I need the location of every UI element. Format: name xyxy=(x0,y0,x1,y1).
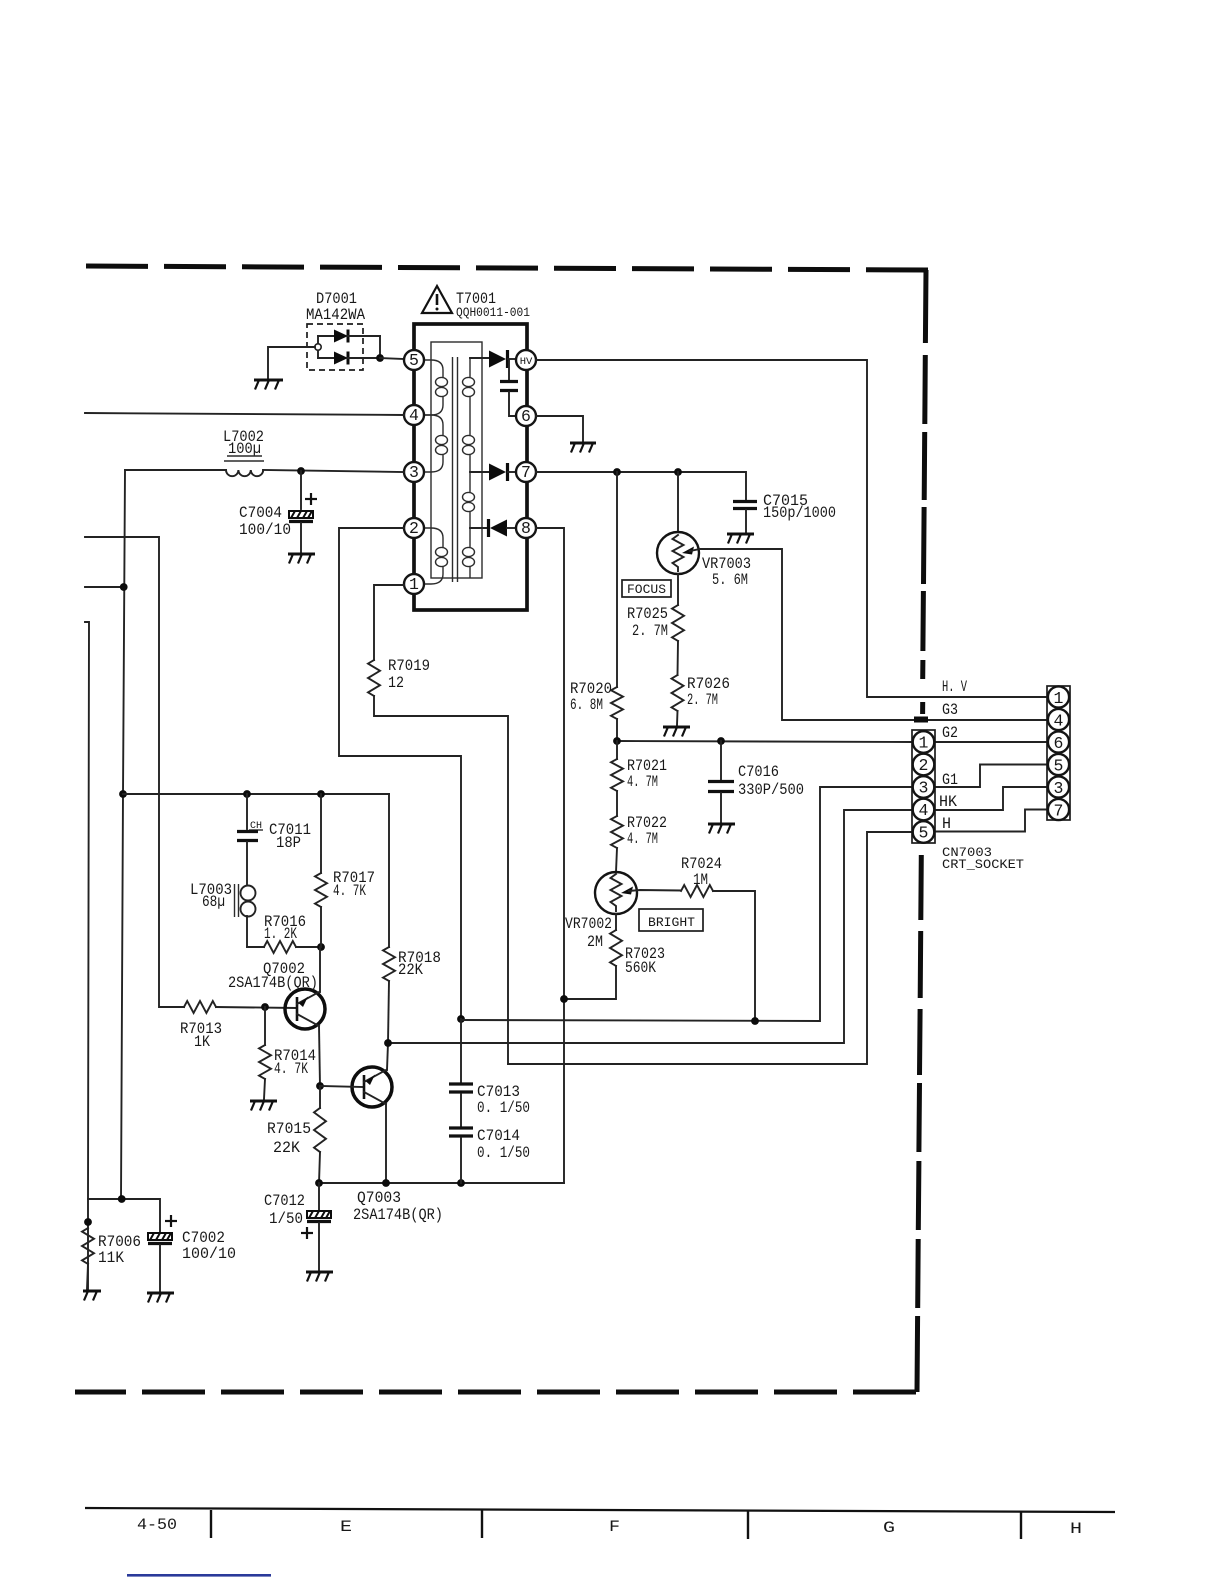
pin 5 xyxy=(404,350,424,370)
capacitor C7014 0.1/50 xyxy=(449,1127,530,1183)
capacitor C7013 0.1/50 xyxy=(449,1019,530,1126)
wire pin2 net down to C7013 xyxy=(339,528,461,1019)
diode to pin8 (reversed) xyxy=(470,519,516,537)
wire HK step to right pin3 xyxy=(935,787,1048,810)
svg-text:2: 2 xyxy=(919,756,929,775)
svg-text:5: 5 xyxy=(1054,757,1064,776)
svg-text:11K: 11K xyxy=(98,1249,124,1267)
wire bus y794 xyxy=(123,793,389,795)
diode pair D7001 MA142WA xyxy=(306,290,380,370)
svg-text:2M: 2M xyxy=(587,933,603,951)
node G2/R7020 xyxy=(613,737,621,745)
diode to HV xyxy=(470,350,516,368)
footer tick F xyxy=(481,1510,483,1538)
svg-text:VR7002: VR7002 xyxy=(565,915,612,933)
svg-text:C7016: C7016 xyxy=(738,763,779,781)
node x123/y587 xyxy=(120,583,128,591)
node HK junction xyxy=(384,1039,392,1047)
svg-text:R7025: R7025 xyxy=(627,605,668,623)
svg-text:C7004: C7004 xyxy=(239,504,282,522)
svg-text:4. 7M: 4. 7M xyxy=(627,830,658,848)
wire pin8 down the long vertical xyxy=(536,528,564,1183)
svg-text:Q7003: Q7003 xyxy=(357,1189,401,1207)
wire bottom bus y1183 xyxy=(319,1182,564,1184)
resistor R7020 6.8M xyxy=(570,472,623,741)
svg-text:0. 1/50: 0. 1/50 xyxy=(477,1144,530,1162)
ground (D7001) xyxy=(254,380,283,390)
node D7001 cathode junction xyxy=(376,354,384,362)
svg-text:7: 7 xyxy=(1054,802,1064,821)
node R7016/R7017 xyxy=(317,943,325,951)
wire D7001 to ground xyxy=(268,347,315,378)
footer tick G xyxy=(747,1511,749,1539)
wire G1 step to right pin5 xyxy=(935,765,1048,788)
svg-text:C7012: C7012 xyxy=(264,1192,305,1210)
svg-text:0. 1/50: 0. 1/50 xyxy=(477,1099,530,1117)
resistor R7023 560K xyxy=(564,914,665,999)
svg-text:R7015: R7015 xyxy=(267,1120,311,1138)
svg-text:4-50: 4-50 xyxy=(137,1516,177,1534)
wire stub y587 xyxy=(85,586,124,588)
capacitor inside (HV-6) xyxy=(500,360,518,416)
svg-text:22K: 22K xyxy=(273,1139,300,1157)
BRIGHT box xyxy=(639,909,703,931)
ground (R7026) xyxy=(663,727,690,737)
blue underline mark xyxy=(127,1574,271,1577)
footer tick H xyxy=(1020,1511,1022,1539)
svg-text:2: 2 xyxy=(409,519,419,538)
ground (C7012) xyxy=(306,1272,333,1282)
svg-text:C7014: C7014 xyxy=(477,1127,520,1145)
secondary winding S2 xyxy=(463,435,475,492)
svg-text:100/10: 100/10 xyxy=(182,1245,236,1263)
svg-text:22K: 22K xyxy=(398,961,423,979)
pin 8 xyxy=(516,518,536,538)
resistor R7014 4.7K xyxy=(259,1007,316,1099)
svg-text:8: 8 xyxy=(521,519,531,538)
svg-text:BRIGHT: BRIGHT xyxy=(648,915,695,930)
pin 4 xyxy=(404,405,424,425)
wire HK bus xyxy=(388,810,912,1043)
winding P2 (pins 4-3) xyxy=(424,415,448,472)
svg-text:6: 6 xyxy=(1054,734,1064,753)
node R7006 top xyxy=(84,1218,92,1226)
svg-text:HV: HV xyxy=(520,356,533,368)
diode to pin7 xyxy=(470,463,516,481)
svg-text:12: 12 xyxy=(388,674,404,692)
svg-text:2. 7M: 2. 7M xyxy=(632,622,668,640)
ground (pin6) xyxy=(570,443,596,453)
shield border bottom (dashed) xyxy=(75,1390,916,1395)
node R7024 drop junction xyxy=(751,1017,759,1025)
svg-text:F: F xyxy=(609,1518,620,1536)
capacitor C7002 100/10 xyxy=(148,1215,236,1291)
resistor R7013 1K xyxy=(180,1001,296,1051)
svg-text:4: 4 xyxy=(1054,712,1064,731)
wire HV net xyxy=(536,360,1048,697)
wire G2 to right connector xyxy=(935,741,1048,743)
potentiometer VR7003 5.6M xyxy=(657,472,1048,720)
winding P1 (pins 5-4) xyxy=(424,360,448,415)
pin 3 xyxy=(404,462,424,482)
svg-text:2. 7M: 2. 7M xyxy=(687,691,718,709)
svg-text:5: 5 xyxy=(409,351,419,370)
resistor R7025 2.7M xyxy=(627,574,684,675)
svg-text:18P: 18P xyxy=(276,834,301,852)
svg-text:7: 7 xyxy=(521,463,531,482)
footer rule line xyxy=(85,1508,1115,1512)
resistor R7016 1.2K xyxy=(247,913,321,953)
svg-text:3: 3 xyxy=(1054,779,1064,798)
resistor R7026 2.7M xyxy=(672,675,731,725)
secondary winding S3 xyxy=(463,492,475,547)
potentiometer VR7002 2M xyxy=(565,872,637,951)
capacitor C7011 18P xyxy=(237,794,311,884)
svg-text:E: E xyxy=(340,1518,352,1536)
ground (R7014) xyxy=(250,1101,277,1111)
svg-text:1: 1 xyxy=(1054,689,1064,708)
svg-text:6. 8M: 6. 8M xyxy=(570,696,603,714)
svg-text:G2: G2 xyxy=(942,724,958,742)
inductor L7003 68u xyxy=(190,881,256,947)
svg-text:4. 7K: 4. 7K xyxy=(274,1060,308,1078)
transformer T7001 xyxy=(404,324,536,610)
node C7011 tap xyxy=(243,790,251,798)
pin 1 xyxy=(404,574,424,594)
pin HV xyxy=(516,350,536,370)
svg-text:5: 5 xyxy=(919,824,929,843)
svg-text:MA142WA: MA142WA xyxy=(306,306,365,324)
resistor R7017 4.7K xyxy=(315,794,375,947)
node VR7003 tap xyxy=(674,468,682,476)
warning triangle xyxy=(422,286,452,313)
shield border top (dashed) xyxy=(78,266,928,270)
wire left rail x89 xyxy=(85,622,89,1290)
svg-text:100/10: 100/10 xyxy=(239,521,291,539)
G3 border crossing bar xyxy=(914,717,928,723)
ground (C7016) xyxy=(708,824,735,834)
svg-text:4. 7K: 4. 7K xyxy=(333,882,366,900)
wire to pin 5 xyxy=(380,358,404,359)
resistor R7022 4.7M xyxy=(611,814,667,872)
node R7014 tap xyxy=(261,1003,269,1011)
svg-text:560K: 560K xyxy=(625,959,656,977)
svg-text:QQH0011-001: QQH0011-001 xyxy=(456,305,530,320)
node Q7003 base junction xyxy=(316,1082,324,1090)
svg-text:4: 4 xyxy=(919,801,929,820)
capacitor C7012 1/50 xyxy=(264,1183,331,1270)
wire G2 bus xyxy=(617,741,912,742)
FOCUS box xyxy=(622,580,671,597)
resistor R7018 22K xyxy=(383,794,441,1043)
svg-text:1/50: 1/50 xyxy=(269,1210,303,1228)
resistor R7024 1M (wiper wire) xyxy=(629,855,755,1021)
wire G1 bus xyxy=(461,787,912,1021)
svg-text:1K: 1K xyxy=(194,1033,210,1051)
node x121/y1199 xyxy=(118,1195,126,1203)
wire L7002 row xyxy=(125,469,226,471)
node R7023/pin8 junction xyxy=(560,995,568,1003)
transistor Q7003 2SA174B(QR) xyxy=(320,1043,443,1224)
secondary winding S1 xyxy=(463,358,475,435)
wire pin6 to ground xyxy=(536,416,583,441)
svg-text:4: 4 xyxy=(409,406,419,425)
svg-text:2SA174B(QR): 2SA174B(QR) xyxy=(228,974,318,992)
svg-text:3: 3 xyxy=(919,779,929,798)
svg-text:6: 6 xyxy=(521,407,531,426)
svg-text:FOCUS: FOCUS xyxy=(627,582,666,597)
wire pin4 to left edge xyxy=(85,413,404,415)
connector CN7003 right column xyxy=(1047,686,1070,821)
svg-text:1: 1 xyxy=(919,734,929,753)
svg-text:HK: HK xyxy=(939,793,957,811)
pin 7 xyxy=(516,462,536,482)
ground (R7006) xyxy=(83,1291,101,1301)
svg-text:68µ: 68µ xyxy=(202,893,225,911)
connector CN7003 left column xyxy=(912,730,935,843)
svg-text:150p/1000: 150p/1000 xyxy=(763,504,836,522)
resistor R7021 4.7M xyxy=(611,741,667,816)
svg-text:1: 1 xyxy=(409,575,419,594)
resistor R7006 11K xyxy=(82,1228,141,1289)
ground (C7015) xyxy=(727,534,754,544)
capacitor C7016 330P/500 xyxy=(708,741,804,822)
capacitor C7015 150p/1000 xyxy=(733,492,836,532)
svg-text:2SA174B(QR): 2SA174B(QR) xyxy=(353,1206,443,1224)
node R7015 bottom xyxy=(315,1179,323,1187)
node R7020 tap xyxy=(613,468,621,476)
pin 6 xyxy=(516,406,536,426)
svg-text:H: H xyxy=(942,815,951,833)
secondary winding S4 xyxy=(463,547,475,578)
svg-text:G3: G3 xyxy=(942,701,958,719)
svg-text:4. 7M: 4. 7M xyxy=(627,773,658,791)
node C7013 top junction xyxy=(457,1015,465,1023)
svg-text:3: 3 xyxy=(409,463,419,482)
ground (C7002) xyxy=(147,1293,174,1303)
inductor L7002 100u xyxy=(223,428,264,476)
wire y1199 row xyxy=(88,1199,160,1232)
svg-text:H. V: H. V xyxy=(942,678,967,696)
shield border right (dashed) xyxy=(917,270,926,1392)
svg-text:G: G xyxy=(883,1519,895,1537)
svg-text:330P/500: 330P/500 xyxy=(738,781,804,799)
wire stub y537 to x159 rail xyxy=(85,537,184,1007)
node C7016 tap xyxy=(717,737,725,745)
svg-text:H: H xyxy=(1070,1520,1082,1538)
node R7017 tap xyxy=(317,790,325,798)
node C7014 bottom xyxy=(457,1179,465,1187)
resistor R7019 12 xyxy=(368,585,508,1064)
footer tick E xyxy=(210,1510,212,1538)
svg-text:1. 2K: 1. 2K xyxy=(264,925,297,943)
wire H bus xyxy=(508,832,912,1064)
svg-text:R7019: R7019 xyxy=(388,657,430,675)
pin 2 xyxy=(404,518,424,538)
node Q7003 emitter bottom xyxy=(382,1179,390,1187)
wire pin7 row xyxy=(536,472,746,500)
svg-text:5. 6M: 5. 6M xyxy=(712,571,748,589)
capacitor C7004 100/10 xyxy=(239,471,317,552)
node C7004 tap xyxy=(297,467,305,475)
winding P3 (pins 2-1) xyxy=(424,528,448,584)
svg-text:G1: G1 xyxy=(942,771,958,789)
svg-text:CRT_SOCKET: CRT_SOCKET xyxy=(942,857,1024,872)
transistor Q7002 2SA174B(QR) xyxy=(228,947,325,1086)
ground (C7004) xyxy=(288,554,315,564)
svg-text:1M: 1M xyxy=(693,871,708,889)
resistor R7015 22K xyxy=(267,1086,326,1183)
wire H step to right pin7 xyxy=(935,810,1048,832)
node x123/y794 xyxy=(119,790,127,798)
wire left rail x123 xyxy=(121,470,125,1199)
